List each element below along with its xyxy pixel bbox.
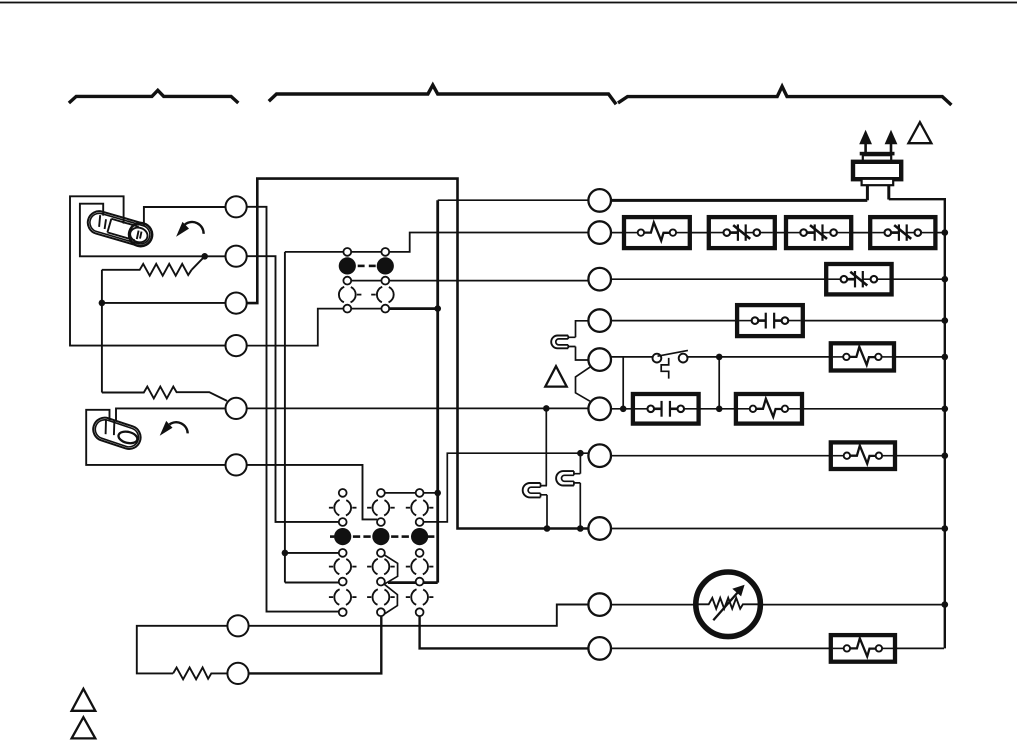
connector J2 col 3 pin 5 (small) [416,608,424,616]
terminal T3 [226,293,247,314]
relay contact box K9 (spike element) [736,394,802,424]
relay contact box K7 (spike element) [831,343,894,370]
junction switch branch [716,354,723,361]
brace left (thermostat section) [69,90,238,103]
wire box K11 to bus [895,647,944,649]
connector J2 col 2 socket 4 (dashed) [373,589,390,606]
wire zigzag J2 col2 pin3 to pin4 [384,555,397,584]
connector J2 col 1 socket 4 (dashed) [334,589,351,606]
wire terminal M4 to box K6 [611,320,737,322]
wire mercury bulb 1 right electrode to terminal T1 [144,207,226,226]
connector J2 col 2 pin 5 (small) [377,608,385,616]
wire box K6 to bus [803,320,944,322]
wire branch to J2 pin A3 [285,552,339,554]
wire terminal T4 to connector J1 bottom pins [247,309,386,346]
transformer arrow stems [866,144,891,153]
connector J1 col B pin 1 (small) [381,248,389,256]
transformer arrow left [859,130,872,144]
relay contact box K3 (NC contact) [786,217,851,248]
wire lamp L3 top to M6 row [545,408,547,485]
junction T5 row/lamp L3 [543,405,550,412]
connector J2 col 2 socket 3 (dashed) [373,558,390,575]
page top rule [0,2,1017,4]
junction bus row3 [942,276,949,283]
terminal T2 [226,246,247,267]
connector J2 col 1 pin 1 (small) [339,489,347,497]
junction bus row4 [942,317,949,324]
wire box K10 to bus [895,455,944,457]
transformer arrow right [885,130,898,144]
note triangle 3 (bottom left upper) [72,689,96,711]
connector J2 col 2 pin 4 (small) [377,578,385,586]
potentiometer R4 wiper arrowhead [732,585,744,597]
wire branch M5 row down to M6 row [622,357,624,409]
junction bus row8 [942,525,949,532]
transformer upper plate [863,155,891,162]
connector J2 col 3 socket 1 (dashed) [411,499,428,516]
note triangle 2 (near lamps) [545,366,566,386]
wire terminal T3 to chain [102,302,226,304]
transformer top bar [860,152,895,156]
wire connector J1 top pins to terminal M2 [285,233,589,252]
junction bus row9 [942,601,949,608]
mercury bulb B1 electrodes [99,215,141,239]
wire J2 col3 pin5 to terminal M10 [420,616,589,648]
mercury bulb B2 electrodes [106,419,115,435]
junction M8 row/lamp L3 [544,525,551,532]
connector J2 dashed row ticks y507.7 [329,507,333,509]
junction main vertical/J1 bottom [434,305,441,312]
connector J1 col B socket (dashed) [377,286,394,303]
wire connector J1 mid pins to terminal M3 [344,280,589,282]
junction M6 row branch [620,406,627,413]
connector J2 col 2 pin 3 (small) [377,549,385,557]
wire terminal M1 to transformer [611,199,867,202]
lamp L1 [551,336,568,349]
wire zigzag J2 col2 pin4 to pin5 [384,584,398,614]
wire potentiometer R4 to bus [757,604,944,606]
brace right (system section) [618,86,951,105]
terminal M7 [588,444,611,467]
connector J1 col A pin 3 (small) [343,305,351,313]
wire main vertical to connector J2 pin C4 [388,581,438,584]
wire box K9 to bus [802,408,944,410]
terminal T7 [227,615,248,636]
junction M8 row/lamp L2 [577,525,584,532]
transformer body [853,162,901,179]
connector J2 col 1 plug (filled) [334,528,351,545]
connector J2 col 2 pin 2 (small) [377,518,385,526]
wire main vertical top corner to terminal M1 [438,199,589,201]
wire terminal T5 to mercury bulb 2 electrode [116,408,226,420]
connector J2 col 2 socket 1 (dashed) [373,499,390,516]
junction J1 net/J2 pin A3 [282,550,289,557]
connector J2 col 3 socket 3 (dashed) [411,558,428,575]
junction M6 row switch branch [716,406,723,413]
terminal T1 [226,196,247,217]
wire resistor R1 to T2 wire [192,256,205,270]
connector J2 col 2 plug (filled) [372,528,389,545]
wire terminal T5 to terminal M6 [247,407,589,409]
junction R1/T2 wire [201,253,208,260]
relay contact box K11 (spike element) [831,635,895,662]
terminal M6 [588,398,611,421]
junction chain/T3 [99,300,106,307]
connector J2 col 3 pin 3 (small) [416,549,424,557]
switch S1 contact left [653,354,662,363]
wire anticipator chain vertical [101,270,103,393]
wire box K7 to bus [894,356,944,358]
lamp L3 [523,483,541,497]
junction bus row6 [942,406,949,413]
resistor R1 heat anticipator [102,264,192,276]
terminal M10 [588,637,611,660]
relay contact box K10 (spike element) [831,442,895,469]
wire terminal T3 loop to terminal M8 [247,179,589,529]
switch S1 lever [658,350,688,356]
relay contact box K5 (NC contact) [826,264,891,294]
wire transformer to right bus [889,199,945,648]
connector J1 dashed link (filled row) [358,265,365,268]
wire lamp L1 bottom to terminal M5 [576,347,589,361]
transformer lead right [887,185,890,199]
switch S1 contact right [679,354,688,363]
wire lamp L1 top to terminal M4 [576,321,589,338]
terminal M2 [588,221,611,244]
wire lamp L2 top to M7 row [579,453,581,474]
terminal M1 [588,189,611,212]
connector J2 col 1 pin 4 (small) [339,578,347,586]
potentiometer R4 body [696,572,761,637]
wire terminal T4 to mercury bulb 1 electrode [70,196,226,345]
wire terminal M9 to potentiometer R4 [611,604,700,606]
wire jog terminal M5 to terminal M6 [576,367,590,401]
connector J2 col 1 pin 3 (small) [339,549,347,557]
wire terminal M6 to box K8 [611,408,633,410]
rotation arrow A2 head [160,421,173,436]
wire box K2 to box K3 [775,232,786,234]
wire mercury bulb 1 left electrode loop to terminal T2 [80,204,226,257]
junction main vertical/J2 top [434,490,441,497]
relay contact box K1 (spike element) [624,217,690,248]
mercury bulb B1 (heat) [85,208,155,249]
terminal T4 [226,335,247,356]
connector J2 col 1 pin 2 (small) [339,518,347,526]
wire main vertical bus [436,200,439,582]
connector J1 col A socket (dashed) [339,286,356,303]
connector J1 col A pin 1 (small) [343,248,351,256]
terminal M8 [588,517,611,540]
mercury bulb B2 (cool) [90,415,144,452]
connector J1 col B pin 3 (small) [381,305,389,313]
brace middle (subbase section) [269,85,616,104]
note triangle 1 (top right) [908,122,931,143]
wire terminal M10 to box K11 [611,647,831,649]
wire terminal M2 to box K1 [611,232,624,234]
junction bus row7 [942,452,949,459]
connector J2 col 1 socket 3 (dashed) [334,558,351,575]
lamp L2 [556,471,574,485]
junction M7 row/lamp L2 [577,450,584,457]
connector J2 col 3 plug (filled) [411,528,428,545]
connector J2 col 3 socket 4 (dashed) [411,589,428,606]
wire terminal T7 loop to resistor R3 [137,626,227,674]
transformer lower plate [862,179,894,185]
wire lamp L3 bottom to M8 row [546,495,548,529]
transformer lead left [866,185,869,200]
rotation arrow A1 head [176,222,189,237]
wire box K3 to box K4 [851,232,870,234]
connector J2 col 3 pin 1 (small) [416,489,424,497]
wire branch to J2 pin A4 [285,582,339,584]
resistor R2 cool anticipator [102,387,227,401]
wire connector J1 bottom pin B3 to main vertical [386,307,438,310]
potentiometer R4 element [698,598,758,609]
connector J2 filled row stubs and dashes [330,535,334,538]
terminal M4 [588,309,611,332]
terminal M9 [588,593,611,616]
wire terminal T2 to connector J2 pin A2 [247,256,339,522]
rotation arrow A2 (bulb B2) [170,422,188,433]
wire connector J2 top pins to main vertical [385,492,438,494]
terminal T6 [226,454,247,475]
connector J1 col A plug (filled) [339,257,356,274]
wire terminal T8 to connector J2 pin B5 [249,616,381,673]
relay contact box K4 (NC contact) [870,217,935,248]
wire box K1 to box K2 [690,232,709,234]
wire lamp L2 bottom to M8 row [579,483,581,529]
wire box K8 to box K9 [699,408,736,410]
wire J1 net vertical to connector J2 col1 [284,252,286,583]
wire box K4 to bus [935,232,943,234]
connector J1 col A pin 2 (small) [343,277,351,285]
rotation arrow A1 (bulb B1) [185,222,204,234]
note triangle 4 (bottom left lower) [72,717,96,738]
connector J1 dashed link (dashed row) [357,294,362,296]
connector J2 col 3 pin 2 (small) [416,518,424,526]
wire terminal T7 to terminal M9 [249,605,589,626]
connector J2 col 3 pin 4 (small) [416,578,424,586]
wire terminal T6 to connector J2 pin B2 [247,465,378,520]
wire box K5 to bus [892,278,944,280]
wire terminal M5 to switch S1 [611,356,653,358]
wire terminal T6 to mercury bulb 2 electrode loop [86,410,225,465]
junction bus row2 [942,229,949,236]
connector J1 col B plug (filled) [377,257,394,274]
wire switch S1 to box K7 [688,356,831,358]
terminal M3 [588,268,611,291]
connector J2 dashed row ticks y597.1 [329,596,333,598]
switch S1 actuator link [661,358,669,379]
wire branch switch row down to M6 row [718,357,720,409]
junction bus row5 [942,354,949,361]
terminal T8 [227,663,248,684]
connector J1 col B pin 2 (small) [381,277,389,285]
resistor R3 [173,668,227,680]
wire terminal T1 to connector J2 pin A5 [247,207,339,612]
terminal T5 [226,398,247,419]
wire terminal M8 to bus [611,528,944,530]
relay contact box K2 (NC contact) [709,217,775,248]
connector J2 col 1 pin 5 (small) [339,608,347,616]
connector J2 col 2 pin 1 (small) [377,489,385,497]
wire terminal M3 to box K5 [611,278,826,280]
relay contact box K6 (NO contact) [737,305,803,336]
connector J2 col 1 socket 1 (dashed) [334,499,351,516]
relay contact box K8 (NO contact) [633,394,699,424]
wire terminal M7 to box K10 [611,455,831,457]
connector J2 dashed row ticks y566.6 [329,566,333,568]
wire J2 col3 pin2 to terminal M7 row [424,453,590,522]
terminal M5 [588,348,611,371]
potentiometer R4 wiper arrow [713,592,738,620]
